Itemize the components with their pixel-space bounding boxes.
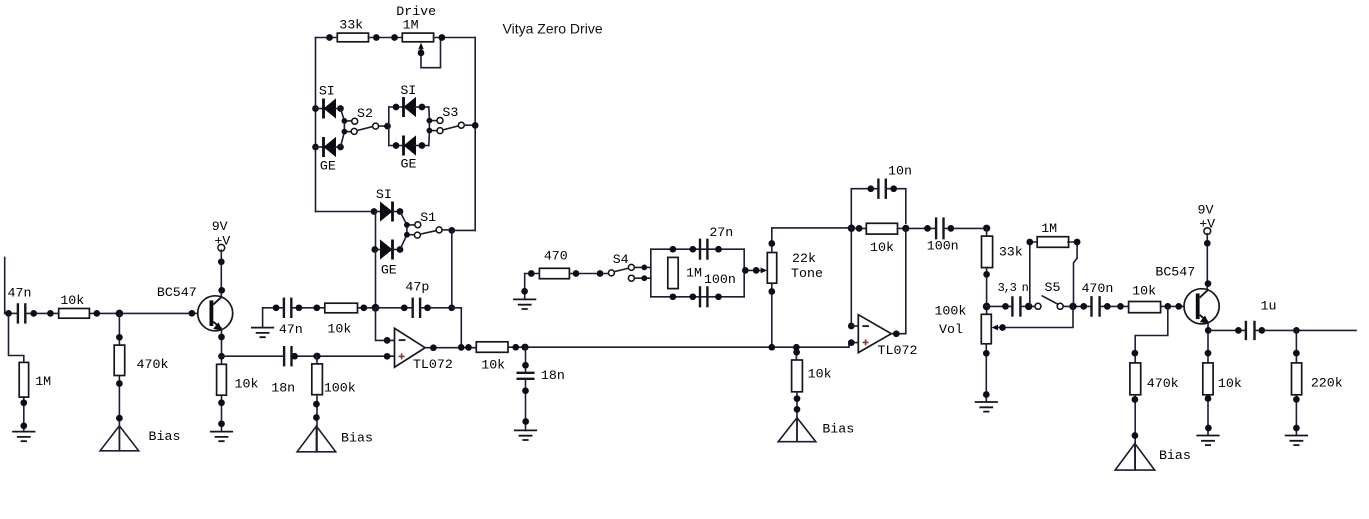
- node above 470k Q2: [1132, 350, 1139, 357]
- svg-text:BC547: BC547: [1155, 264, 1195, 279]
- svg-text:47n: 47n: [8, 286, 32, 301]
- wire C1 to R 10k: [25, 312, 58, 314]
- switch S4 upper throw: [628, 264, 634, 270]
- node below Q1 10k: [218, 399, 225, 406]
- node below 220k: [1293, 396, 1300, 403]
- node bus a: [512, 344, 519, 351]
- node above Q2 10k: [1205, 350, 1212, 357]
- svg-text:18n: 18n: [271, 381, 295, 396]
- op-amp U1B TL072: [858, 315, 891, 353]
- node before Drive pot: [391, 34, 398, 41]
- potentiometer Tone 22k: [767, 253, 776, 284]
- resistor 470k Q2 bias: [1130, 363, 1141, 395]
- wire S4 upper stub: [634, 266, 650, 268]
- node supply stub 2: [1204, 240, 1211, 247]
- capacitor C2 18n: [284, 346, 291, 366]
- wire bias branch from bus: [795, 347, 797, 360]
- node below 1M: [20, 399, 27, 406]
- svg-text:Bias: Bias: [341, 431, 373, 446]
- transistor Q2 BC547: [1184, 289, 1219, 324]
- node C6 right: [715, 293, 722, 300]
- wire S2 lever: [357, 127, 373, 131]
- svg-text:S3: S3: [442, 105, 458, 120]
- capacitor C1 47n: [18, 303, 25, 323]
- node before C8: [924, 225, 931, 232]
- wire Drive pot wiper to right end: [421, 38, 441, 68]
- wire ground to 470: [525, 274, 540, 300]
- svg-text:Bias: Bias: [1159, 448, 1191, 463]
- node before C9: [1002, 303, 1009, 310]
- wire op2 output up to feedback: [905, 228, 907, 333]
- node above ground G5: [521, 288, 528, 295]
- svg-text:GE: GE: [381, 262, 397, 277]
- node before C11: [1235, 327, 1242, 334]
- wire 10k to Q1 base: [89, 312, 210, 314]
- svg-text:10k: 10k: [481, 357, 505, 372]
- diode D6 GE: [380, 239, 393, 259]
- node after C4: [424, 304, 431, 311]
- wire tone block top rail: [651, 248, 744, 250]
- wire Q2 emitter down: [1207, 323, 1209, 363]
- switch S3 pole: [458, 122, 464, 128]
- node S2 output: [384, 123, 391, 130]
- wire op2 minus lead: [851, 325, 858, 327]
- node D3 right: [419, 104, 426, 111]
- wire op2 left vertical: [850, 228, 852, 326]
- wire 1M bypass right bracket: [1068, 242, 1077, 306]
- node op2 plus input: [848, 339, 855, 346]
- node Q2 base junction: [1164, 303, 1171, 310]
- node pair3 entry: [371, 208, 378, 215]
- node emitter 1a: [218, 334, 225, 341]
- ground G5 470 resistor: [513, 299, 536, 309]
- node before C4: [401, 304, 408, 311]
- svg-text:GE: GE: [320, 159, 336, 174]
- node Tone on bus: [768, 344, 775, 351]
- wire emitter to C11: [1208, 329, 1246, 331]
- capacitor C5 27n: [700, 239, 707, 260]
- node below 470k Q2: [1132, 396, 1139, 403]
- wire C12 to ground: [525, 379, 527, 431]
- wire pair2 left bracket: [388, 107, 390, 146]
- node after C7: [890, 185, 897, 192]
- wire 33k down to S5 row: [986, 268, 988, 315]
- wire D2 left lead: [316, 146, 324, 148]
- node above ground G6: [983, 391, 990, 398]
- node above 220k: [1293, 350, 1300, 357]
- wire Tone bottom to bus: [771, 283, 773, 347]
- wire bus op1 to op2: [508, 346, 849, 348]
- switch S2 lower throw: [351, 128, 357, 134]
- node 470k top: [116, 334, 123, 341]
- resistor 1M to ground: [19, 362, 28, 397]
- svg-text:3,3 n: 3,3 n: [998, 281, 1029, 295]
- node above ground G2: [218, 420, 225, 427]
- wire feedback row left: [851, 227, 866, 229]
- wire supply to Q2 collector: [1206, 234, 1208, 289]
- switch S3 upper throw: [437, 118, 443, 124]
- node S1 lower stub: [404, 232, 410, 238]
- svg-text:Vitya Zero Drive: Vitya Zero Drive: [503, 20, 603, 36]
- node D1 anode rail: [312, 105, 319, 112]
- svg-text:Bias: Bias: [149, 429, 181, 444]
- wire S1 pole to node: [442, 229, 452, 231]
- svg-text:22k: 22k: [792, 251, 816, 266]
- svg-text:47n: 47n: [279, 322, 303, 337]
- svg-text:1M: 1M: [35, 374, 51, 389]
- node 1M bottom: [670, 293, 677, 300]
- switch S2 upper throw: [352, 118, 358, 124]
- wire top feedback rail: [316, 37, 338, 39]
- switch S3 lower throw: [437, 128, 443, 134]
- wire pair3 right bracket: [400, 212, 407, 250]
- svg-text:470k: 470k: [1147, 376, 1179, 391]
- wire S1 upper stub: [407, 224, 415, 226]
- node op1 plus input: [384, 353, 391, 360]
- node below Q2 10k: [1205, 395, 1212, 402]
- wire 18n shunt branch: [525, 347, 527, 373]
- node wiper stub: [418, 50, 425, 57]
- ground G6 Vol: [975, 402, 998, 412]
- node S3 on right rail: [472, 122, 479, 129]
- wire S5 to 470n: [1063, 305, 1091, 307]
- wire S2 pole to node: [379, 125, 389, 127]
- svg-text:10k: 10k: [808, 367, 832, 382]
- svg-text:18n: 18n: [541, 368, 565, 383]
- switch S4 pole: [608, 270, 614, 276]
- svg-text:1M: 1M: [403, 17, 419, 32]
- svg-text:10k: 10k: [327, 322, 351, 337]
- wire tap to Tone wiper: [744, 269, 761, 271]
- wire S3 lever: [443, 126, 459, 130]
- wire 10n branch up: [851, 189, 878, 228]
- svg-text:10k: 10k: [1132, 283, 1156, 298]
- node S4 upper: [641, 265, 647, 271]
- wire S1 node down to 47p node: [451, 230, 453, 307]
- node D6 right: [397, 246, 404, 253]
- node after C10: [1104, 303, 1111, 310]
- bias reference symbol B1: [100, 426, 139, 451]
- capacitor C6 100n: [700, 286, 707, 307]
- resistor 10k bias feed: [792, 360, 803, 392]
- wire D2 right lead: [336, 146, 341, 148]
- node D4 left: [393, 142, 400, 149]
- node vol top junction: [983, 303, 991, 311]
- wire pair3 bracket down to inverting node: [375, 250, 377, 308]
- svg-text:1M: 1M: [686, 265, 702, 280]
- node base junction: [116, 310, 124, 318]
- wire Q2 base bias branch: [1135, 306, 1168, 363]
- resistor 100k op1 plus: [312, 364, 323, 395]
- wire 10k to Bias B3: [796, 392, 798, 442]
- resistor 470: [539, 268, 569, 278]
- node 100k junction: [313, 353, 320, 360]
- wire D1 right lead: [336, 108, 341, 110]
- node 1M top: [670, 246, 677, 253]
- wire 100k to Bias B2: [316, 395, 318, 452]
- node top rail left: [326, 34, 333, 41]
- capacitor C3 47n: [284, 298, 291, 318]
- diode D4 GE: [404, 135, 417, 155]
- svg-text:SI: SI: [376, 187, 392, 202]
- node below 33k: [983, 271, 990, 278]
- wire 100k stub: [316, 356, 318, 364]
- capacitor C9 3.3n: [1012, 296, 1020, 316]
- node after C3: [296, 304, 303, 311]
- node before op1 10k: [313, 304, 320, 311]
- wire feedback down to output: [452, 308, 462, 348]
- svg-text:100k: 100k: [324, 381, 356, 396]
- node D2 right: [337, 144, 344, 151]
- node before wiper: [753, 267, 760, 274]
- wire S3 lower stub: [429, 130, 437, 132]
- wire S3 pole to rail: [464, 124, 475, 126]
- wire 220k branch down: [1295, 330, 1297, 363]
- wire D1 left lead: [316, 108, 324, 110]
- switch S1 pole: [436, 227, 442, 233]
- svg-text:SI: SI: [319, 84, 335, 99]
- svg-text:TL072: TL072: [413, 357, 453, 372]
- transistor Q1 BC547: [198, 296, 233, 331]
- capacitor C4 47p: [413, 298, 420, 318]
- node D3 left: [393, 104, 400, 111]
- node before C10: [1080, 303, 1087, 310]
- svg-text:33k: 33k: [999, 244, 1023, 259]
- diode D1 SI: [324, 98, 337, 118]
- node D2 rail: [312, 144, 319, 151]
- node S4 lower: [641, 275, 647, 281]
- terminal +9V supply 2: [1204, 228, 1211, 235]
- wire base junction down to 470k: [118, 313, 120, 345]
- svg-text:9V: 9V: [212, 219, 228, 234]
- node before Q2 10k: [1117, 303, 1124, 310]
- diode D3 SI: [404, 97, 417, 117]
- wire rail to pair3: [316, 211, 376, 213]
- wire Q2 10k to ground: [1207, 395, 1209, 436]
- node S4 pole lead: [597, 270, 604, 277]
- diode D2 GE: [324, 137, 337, 157]
- wire input to C1: [5, 312, 18, 314]
- node feedback-output junction: [458, 344, 465, 351]
- node S1 output: [448, 227, 455, 234]
- wire input node to 1M: [9, 313, 24, 362]
- switch S5 left contact: [1035, 303, 1041, 309]
- wire Q1 emitter down: [221, 330, 223, 365]
- svg-text:10k: 10k: [870, 240, 894, 255]
- node op1 output: [430, 344, 437, 351]
- capacitor C11 1u: [1246, 321, 1255, 340]
- wire D5 left lead: [376, 211, 381, 213]
- wire D6 right lead: [393, 249, 401, 251]
- node above Bias B1: [116, 415, 123, 422]
- svg-text:GE: GE: [401, 156, 417, 171]
- wire 10k to Q2 base: [1161, 305, 1196, 307]
- wire S1 lever: [420, 231, 436, 235]
- switch S2 pole: [373, 123, 379, 129]
- ground G3 op1 input: [251, 328, 274, 338]
- wire left rail of clipping network: [315, 38, 317, 212]
- ground G1 input 1M: [12, 432, 35, 442]
- node feedback left junction: [848, 225, 855, 232]
- node 1M bypass left: [1026, 239, 1033, 246]
- wire pot to right rail: [434, 37, 476, 39]
- capacitor C12 18n shunt: [517, 373, 535, 379]
- node 33k top: [983, 225, 990, 232]
- resistor 220k load: [1292, 363, 1302, 395]
- wire 470k to bias symbol: [118, 376, 120, 451]
- wire C9 to S5: [1020, 305, 1035, 307]
- node above Bias B2: [313, 414, 320, 421]
- bias reference symbol B4: [1115, 444, 1155, 471]
- wiper arrow of Vol pot: [992, 325, 998, 331]
- node above Bias B3: [794, 406, 801, 413]
- wire C10 to 10k: [1100, 305, 1129, 307]
- node feedback right junction: [902, 225, 909, 232]
- wire 470 to S4: [569, 273, 608, 275]
- node bias branch stub: [793, 349, 800, 356]
- node bus bias branch: [793, 344, 800, 351]
- wire Tone top to feedback row: [772, 228, 852, 253]
- wire C4 to S1 node: [420, 307, 452, 309]
- wire wiper branch down: [998, 306, 1074, 327]
- resistor 10k Q1 emitter: [217, 364, 227, 395]
- svg-text:100n: 100n: [927, 238, 959, 253]
- wire S3 upper stub: [429, 120, 437, 122]
- op-amp U1A TL072: [395, 328, 426, 367]
- wire tone block bottom rail: [651, 296, 744, 298]
- wire D6 left lead: [376, 249, 381, 251]
- node after C2: [291, 353, 298, 360]
- resistor 10k feedback: [866, 223, 897, 234]
- wire S4 lower stub: [634, 277, 650, 279]
- node S5 right junction: [1069, 303, 1076, 310]
- svg-text:S4: S4: [613, 252, 629, 267]
- wire C8 to 33k: [944, 227, 987, 229]
- wire inverting node to C4 47p: [376, 307, 413, 309]
- wire Q1 10k to ground: [221, 395, 223, 431]
- wire S5 lever: [1042, 296, 1057, 304]
- wire right rail of clipping network: [474, 38, 476, 231]
- ground G7 Q2 emitter: [1196, 436, 1219, 446]
- node tone tap: [742, 267, 749, 274]
- node 1M bypass right: [1074, 239, 1081, 246]
- wire tone block right bracket: [743, 249, 745, 297]
- capacitor C8 100n: [936, 217, 943, 239]
- node emitter junction 1: [218, 353, 225, 360]
- wire C11 to output: [1255, 329, 1357, 331]
- svg-text:10n: 10n: [888, 163, 912, 178]
- svg-text:S2: S2: [357, 106, 373, 121]
- node S3 lower stub: [427, 128, 433, 134]
- wiper arrow of Tone pot: [761, 268, 767, 274]
- svg-text:9V: 9V: [1198, 202, 1214, 217]
- node before C3: [273, 304, 280, 311]
- wire C7 to right vertical: [886, 189, 906, 224]
- node below C12: [522, 387, 529, 394]
- node S1 upper stub: [404, 222, 410, 228]
- node S2 lower stub: [342, 129, 348, 135]
- node after 10k: [93, 310, 100, 317]
- node wiper branch: [999, 324, 1006, 331]
- switch S5 right contact: [1057, 303, 1063, 309]
- wire 470k to Bias B4: [1134, 395, 1136, 470]
- node Q2 base lead: [1175, 303, 1182, 310]
- svg-text:470k: 470k: [137, 357, 169, 372]
- wire S2 lower contact stub: [344, 131, 351, 133]
- wire 1M to ground: [23, 397, 25, 432]
- switch S4 lower throw: [628, 275, 634, 281]
- svg-text:10k: 10k: [1218, 376, 1242, 391]
- wire input stub: [4, 257, 6, 313]
- node Tone top: [768, 240, 775, 247]
- wire bus jog to op2 plus: [849, 343, 858, 348]
- wire inverting node to op1 minus: [376, 308, 395, 341]
- resistor 10k input: [59, 309, 90, 319]
- svg-text:SI: SI: [400, 83, 416, 98]
- resistor 10k op1 series: [325, 303, 358, 313]
- switch S1 upper throw: [415, 222, 421, 228]
- node above ground G7: [1205, 425, 1212, 432]
- wire S4 lever: [614, 268, 628, 272]
- wire emitter to C2 18n: [222, 355, 285, 357]
- resistor 10k op1 output: [476, 342, 508, 353]
- potentiometer Vol 100k: [981, 314, 991, 344]
- svg-text:1u: 1u: [1261, 299, 1277, 314]
- potentiometer Drive 1M: [402, 33, 433, 42]
- resistor 10k Q2 emitter: [1203, 363, 1213, 395]
- node after 33k: [373, 34, 380, 41]
- node input: [5, 310, 12, 317]
- wire S2 upper contact stub: [344, 120, 351, 122]
- node above ground G4: [522, 418, 529, 425]
- node op2 output: [893, 330, 900, 337]
- wire 220k to ground: [1295, 395, 1297, 436]
- node op2 minus input: [848, 323, 855, 330]
- node after C11: [1258, 327, 1265, 334]
- node top rail right: [439, 34, 446, 41]
- wire S1 node to right rail: [452, 229, 475, 231]
- wire pair1 right bracket: [341, 109, 345, 148]
- wire pair2 right bracket: [428, 107, 431, 146]
- wire D4 right lead: [415, 145, 429, 147]
- node S2 upper stub: [342, 118, 348, 124]
- node below Vol: [983, 350, 990, 357]
- resistor 33k: [337, 33, 368, 42]
- node above ground G1: [20, 422, 27, 429]
- wire S5 row left: [987, 305, 1013, 307]
- wire ground stem to C3 47n: [263, 308, 284, 328]
- capacitor C7 10n: [878, 179, 885, 199]
- node above C12: [522, 362, 529, 369]
- svg-text:BC547: BC547: [157, 285, 197, 300]
- wire supply to Q1 collector: [220, 250, 222, 296]
- resistor 10k Q2 base: [1129, 302, 1161, 313]
- wire C3 to 10k: [291, 307, 325, 309]
- node after C1: [30, 310, 37, 317]
- svg-text:27n: 27n: [709, 225, 733, 240]
- svg-text:100k: 100k: [934, 303, 966, 318]
- ground G2 Q1 emitter: [210, 432, 233, 442]
- node after op1 10k: [360, 304, 367, 311]
- node 220k branch: [1293, 327, 1300, 334]
- svg-text:33k: 33k: [339, 18, 363, 33]
- wire pair3 left bracket: [375, 212, 377, 250]
- node above ground G8: [1293, 425, 1300, 432]
- node bus 18n branch: [521, 344, 528, 351]
- svg-text:470: 470: [544, 249, 568, 264]
- node at Q1 base lead: [189, 310, 196, 317]
- node Tone bottom: [768, 288, 775, 295]
